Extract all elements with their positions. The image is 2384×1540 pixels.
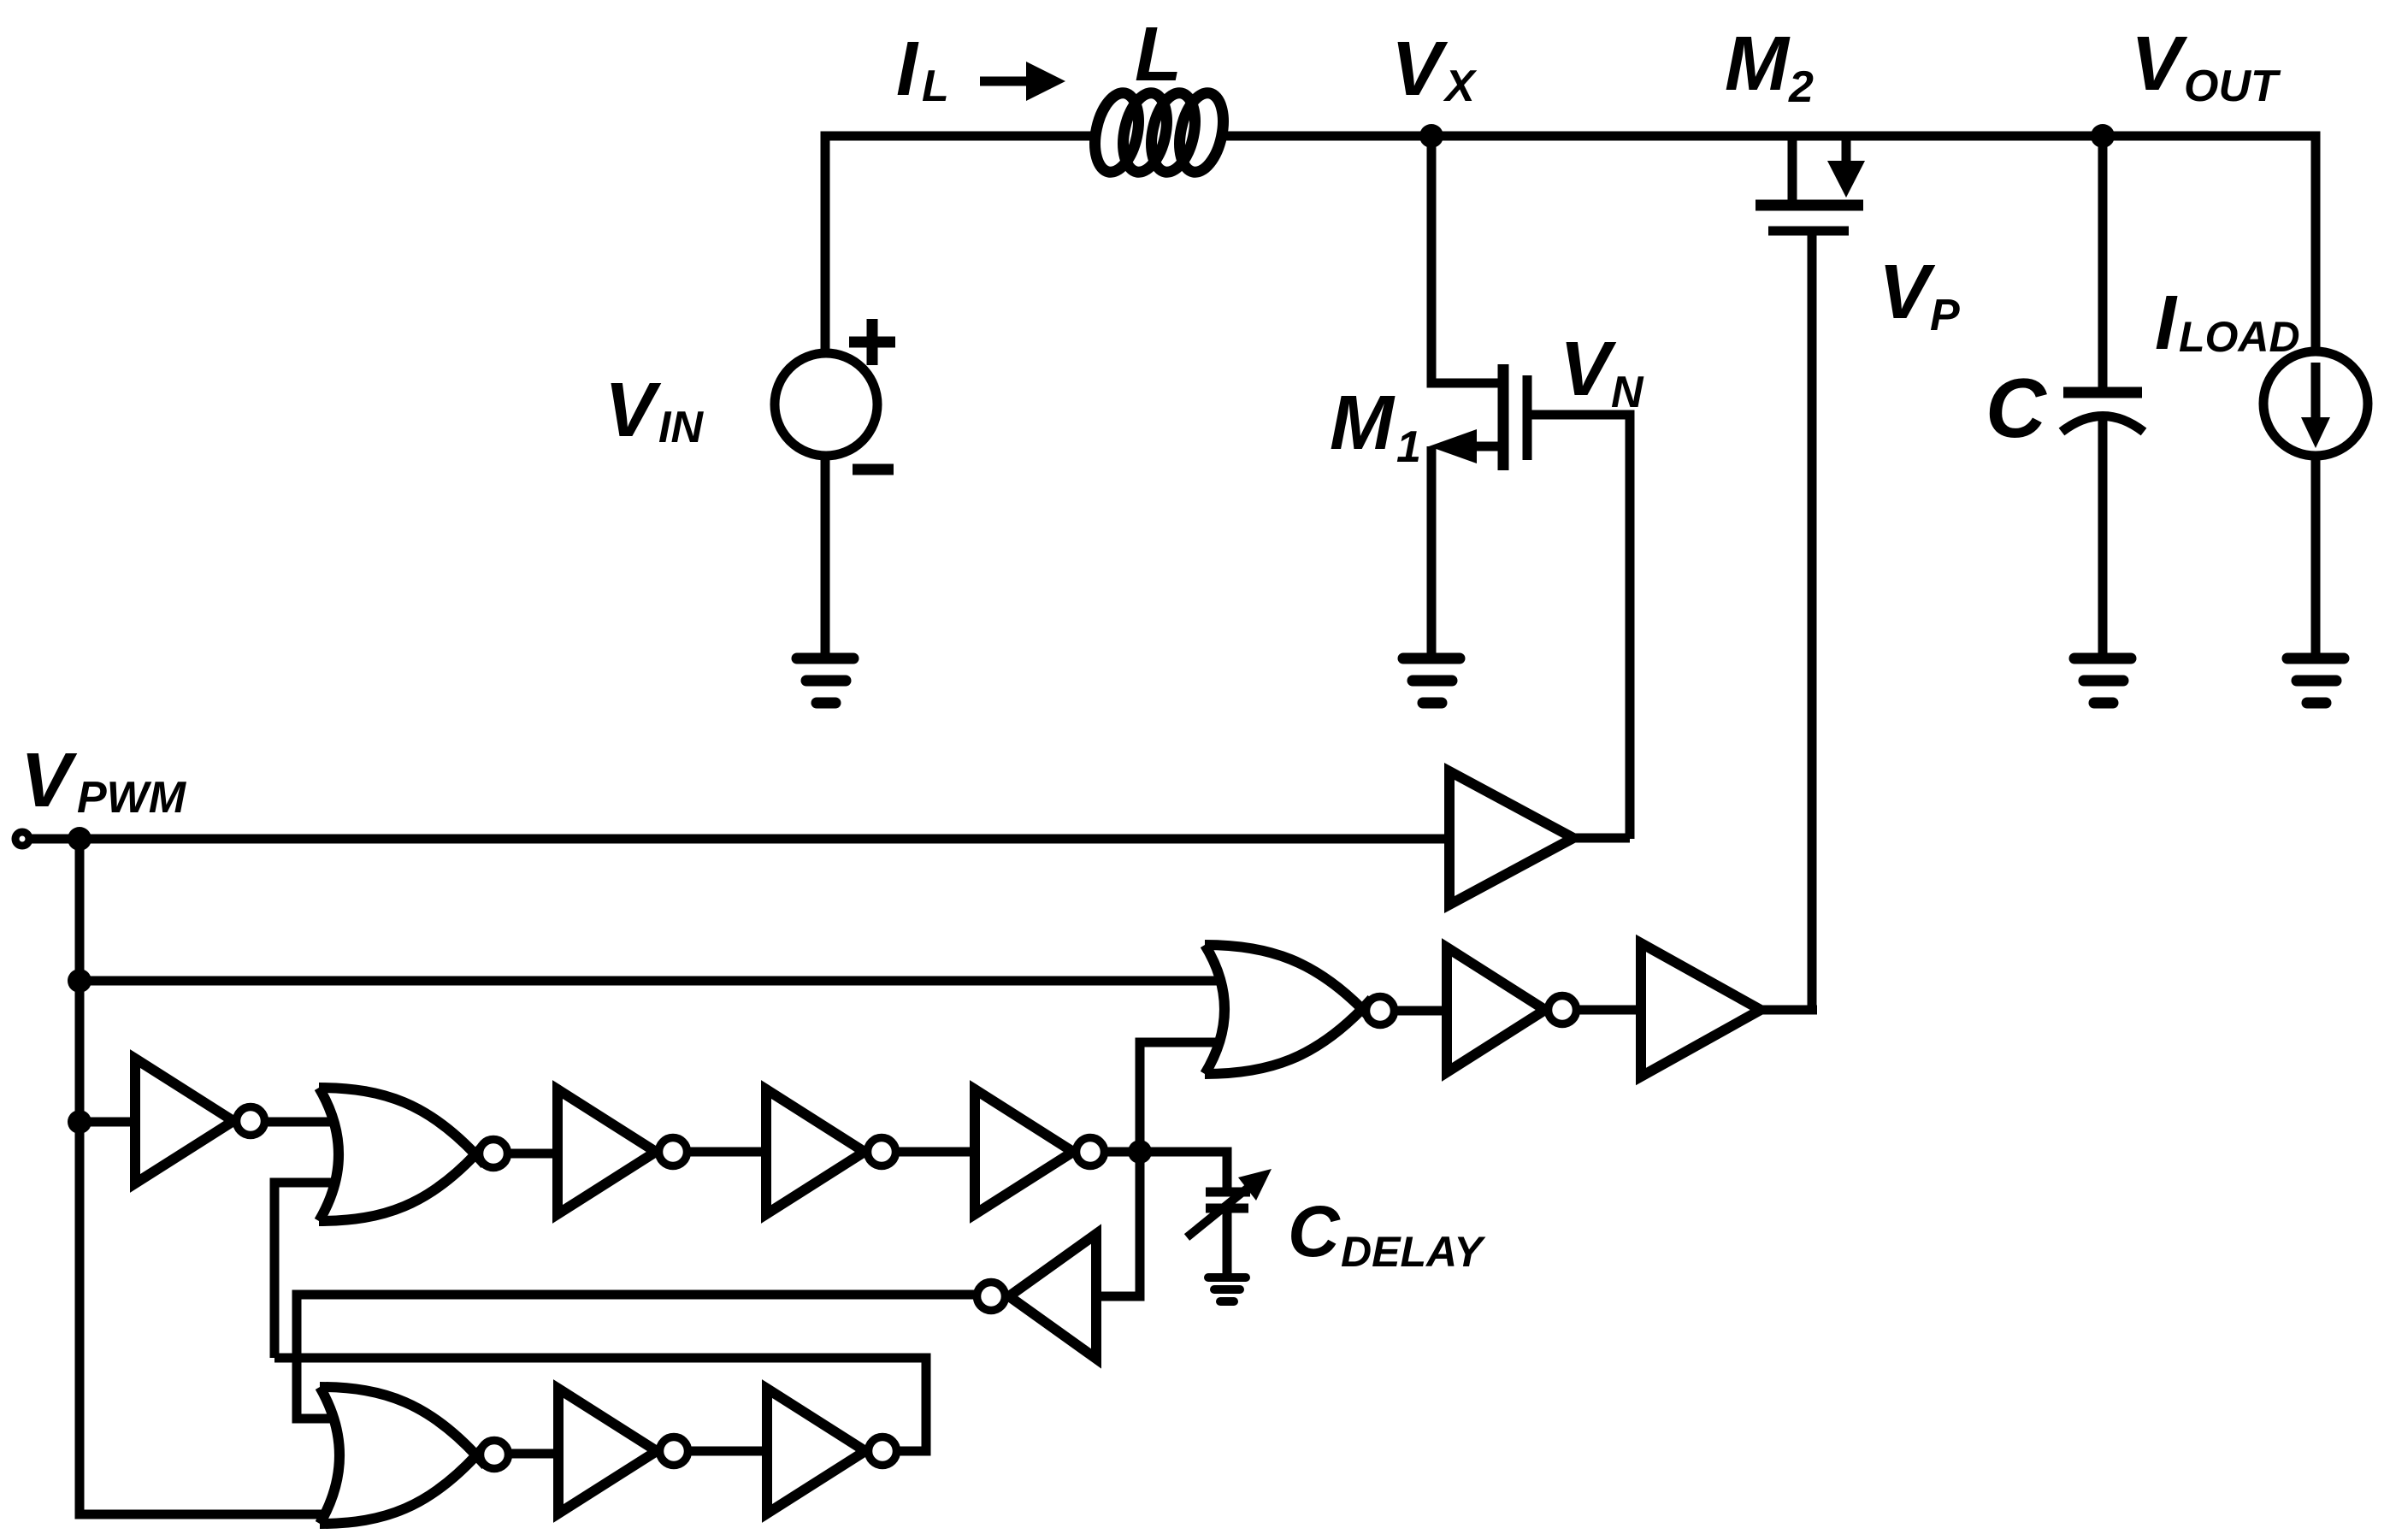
ground under ILOAD [2287, 658, 2344, 703]
wire VIN lead and top rail left segment [825, 136, 1100, 353]
node delay junction [1128, 1140, 1152, 1164]
inverter U12 bubble [660, 1437, 688, 1466]
inverter U8 bubble [868, 1138, 896, 1166]
wire NOR U2 bottom input [1140, 1042, 1219, 1152]
inverter U12 [558, 1389, 657, 1513]
node VX [1419, 124, 1443, 148]
node VPWM junction top [68, 827, 91, 851]
wire U3 out to NOR U6 [268, 1118, 336, 1127]
inverter U10 (left pointing) [1009, 1234, 1096, 1359]
buffer U5 (gate driver for VP) [1641, 943, 1761, 1077]
inverter U8 [766, 1089, 864, 1214]
wire U10 output feedback to NOR U11 top input [297, 1295, 974, 1419]
wire U13 output feedback to NOR U6 bottom input [274, 1358, 926, 1451]
NOR U6 output bubble [480, 1140, 508, 1168]
source VIN circle [775, 353, 877, 456]
svg-text:V: V [1391, 27, 1449, 112]
svg-text:L: L [922, 62, 949, 111]
inverter U3 bubble [237, 1107, 265, 1136]
svg-text:V: V [605, 368, 662, 453]
wire VOUT to ILOAD [2103, 136, 2316, 352]
wire delay node down to inverter U10 input [1096, 1152, 1140, 1296]
wire top rail from inductor to VOUT node [1224, 132, 2103, 141]
svg-text:LOAD: LOAD [2179, 313, 2300, 361]
inverter U13 [767, 1389, 865, 1513]
NOR U2 output bubble [1366, 997, 1395, 1025]
wire capacitor to ground [2098, 417, 2108, 658]
label ILOAD [2155, 280, 2300, 366]
inverter U7 [558, 1089, 656, 1214]
ground under VIN [797, 658, 853, 703]
label IL [896, 27, 949, 112]
svg-text:PWM: PWM [77, 773, 187, 823]
capacitor C [2062, 392, 2144, 432]
wire U1 output to VN vertical [1573, 834, 1630, 843]
wire U8 to inverter U9 [899, 1148, 975, 1157]
svg-text:I: I [2155, 280, 2178, 366]
wire VPWM main row to buffer U1 [30, 835, 1449, 844]
wire delay node to CDELAY cap [1140, 1152, 1227, 1188]
wire M1 gate to VN [1531, 415, 1630, 839]
wire U12 to inverter U13 [691, 1447, 767, 1456]
label M2 [1725, 21, 1814, 112]
NOR U11 output bubble [481, 1441, 509, 1469]
wire VIN bottom lead [821, 456, 830, 658]
capacitor CDELAY (variable) [1187, 1169, 1272, 1237]
VIN plus sign [849, 319, 895, 365]
inverter U10 bubble [977, 1283, 1006, 1311]
inverter U13 bubble [869, 1437, 897, 1466]
input terminal VPWM [15, 832, 29, 846]
node VOUT [2091, 124, 2115, 148]
wire U7 to inverter U8 [690, 1148, 766, 1157]
svg-text:V: V [21, 738, 78, 823]
svg-text:C: C [1986, 361, 2047, 455]
ground under C [2074, 658, 2131, 703]
transistor M2 [1756, 136, 1865, 231]
wire CDELAY to ground [1223, 1213, 1232, 1275]
wire U11 out to inverter U12 [511, 1449, 558, 1459]
ground under M1 [1403, 658, 1460, 703]
inverter U9 [975, 1089, 1073, 1214]
svg-text:DELAY: DELAY [1341, 1228, 1486, 1276]
label CDELAY [1288, 1191, 1486, 1276]
label VOUT [2131, 21, 2281, 111]
svg-text:2: 2 [1788, 62, 1814, 112]
wire VP vertical M2 gate down to buffer [1808, 235, 1817, 1010]
NOR U6 [319, 1088, 485, 1221]
inverter U9 bubble [1077, 1138, 1105, 1166]
svg-text:L: L [1135, 12, 1182, 97]
node junction row2 [68, 969, 91, 993]
svg-text:IN: IN [658, 403, 704, 452]
wire ILOAD to ground [2311, 456, 2321, 658]
transistor M1 drain wire from VX [1431, 136, 1498, 383]
wire U2 out to inverter U4 [1397, 1006, 1447, 1016]
label VX [1391, 27, 1478, 112]
wire U5 output to VP vertical [1761, 1006, 1817, 1015]
node junction row3 [68, 1110, 91, 1134]
transistor M1 [1429, 364, 1527, 470]
inverter U4 [1447, 947, 1545, 1072]
label VN [1560, 327, 1644, 417]
label M1 [1330, 381, 1421, 472]
svg-text:X: X [1443, 62, 1478, 111]
ground under CDELAY [1208, 1277, 1246, 1301]
IL current arrow [980, 62, 1065, 101]
svg-text:V: V [1879, 250, 1936, 335]
VIN minus sign [853, 464, 894, 475]
NOR U11 [320, 1387, 486, 1524]
svg-text:N: N [1611, 368, 1644, 417]
svg-text:P: P [1930, 291, 1960, 340]
label VP [1879, 250, 1960, 340]
wire NOR U6 bottom input [274, 1183, 335, 1358]
label VPWM [21, 738, 187, 823]
svg-text:C: C [1288, 1191, 1341, 1272]
svg-text:I: I [896, 27, 919, 112]
svg-text:V: V [1560, 327, 1617, 412]
NOR U2 [1205, 945, 1372, 1074]
inverter U3 [135, 1059, 233, 1183]
wire VPWM vertical bus [80, 839, 327, 1514]
inverter U4 bubble [1549, 996, 1577, 1024]
svg-text:OUT: OUT [2184, 62, 2281, 111]
wire VOUT down to capacitor C [2098, 136, 2108, 387]
wire U6 out to inverter U7 [510, 1149, 558, 1159]
current source ILOAD [2263, 351, 2368, 456]
wire U9 to delay node [1107, 1148, 1140, 1157]
label VIN [605, 368, 704, 453]
wire M1 source to ground [1427, 446, 1437, 658]
wire row3 to inverter U3 [80, 1118, 135, 1127]
svg-text:V: V [2131, 21, 2188, 107]
svg-text:M: M [1725, 21, 1791, 107]
inverter U7 bubble [659, 1138, 687, 1166]
buffer U1 (gate driver for VN) [1449, 771, 1573, 905]
svg-text:1: 1 [1396, 422, 1421, 472]
svg-text:M: M [1330, 381, 1396, 466]
wire row2 to NOR U2 [80, 977, 1220, 986]
wire U4 to buffer U5 [1579, 1006, 1641, 1015]
inductor L [1089, 89, 1230, 176]
